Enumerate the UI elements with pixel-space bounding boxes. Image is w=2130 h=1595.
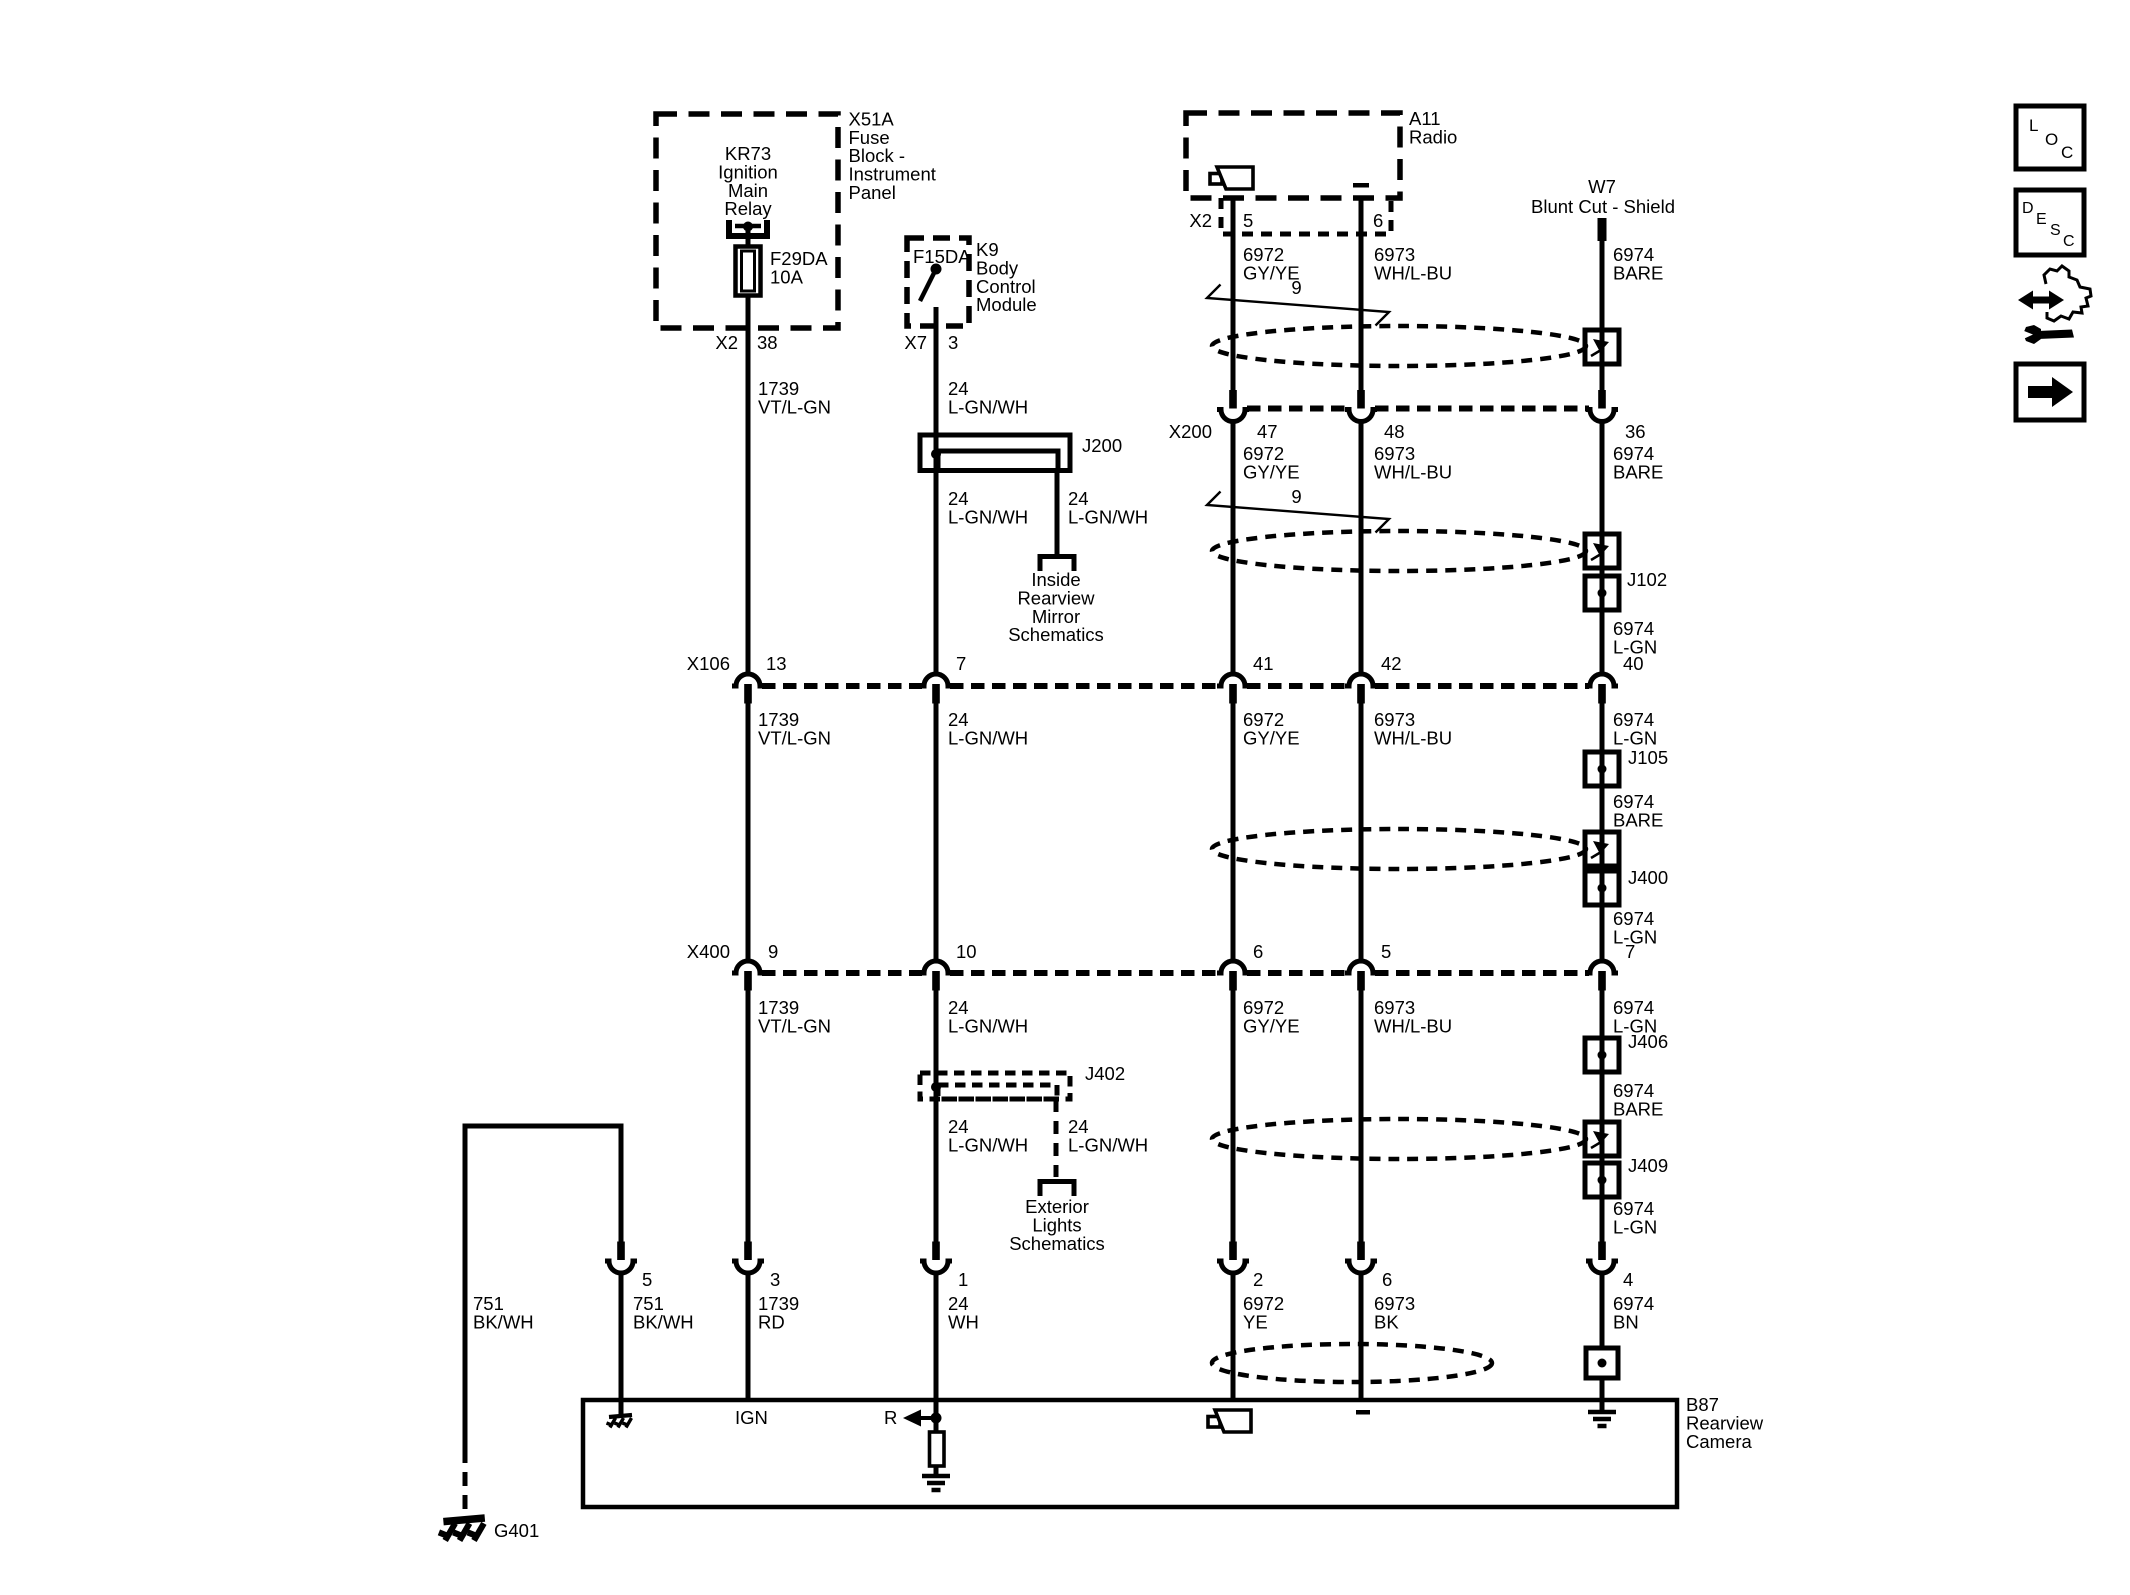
- wire B X400 to bottom connector: [934, 989, 939, 1242]
- label 24 L-GN/WH section 4: [948, 997, 1028, 1036]
- label Exterior Lights Schematics: [1009, 1196, 1105, 1254]
- svg-text:42: 42: [1381, 653, 1402, 674]
- svg-text:X400: X400: [687, 941, 730, 962]
- wire C X200 to X106: [1231, 422, 1236, 675]
- connector X200 terminal wire C: [1217, 390, 1249, 422]
- connector X400 dashed line: [762, 970, 1589, 976]
- camera connector terminal wire C: [1217, 1242, 1249, 1274]
- svg-text:Panel: Panel: [849, 182, 896, 203]
- label 6972 GY/YE section 4: [1243, 997, 1300, 1036]
- label 24 L-GN/WH section 3: [948, 709, 1028, 748]
- shield ellipse bottom: [1212, 1344, 1492, 1382]
- label 6974 BARE circuit: [1613, 244, 1663, 283]
- svg-text:L-GN: L-GN: [1613, 1216, 1657, 1237]
- label 6972 GY/YE circuit: [1243, 244, 1300, 283]
- label 1739 VT/L-GN section 4: [758, 997, 831, 1036]
- fuse block X51A dashed enclosure: [656, 114, 838, 328]
- svg-text:Blunt Cut - Shield: Blunt Cut - Shield: [1531, 196, 1675, 217]
- svg-text:Schematics: Schematics: [1008, 624, 1104, 645]
- svg-text:40: 40: [1623, 653, 1644, 674]
- minus pin inside B87: [1356, 1410, 1370, 1415]
- svg-text:C: C: [2061, 143, 2073, 162]
- wire B87 R input to resistor: [934, 1400, 939, 1433]
- wire E X200 to X106: [1600, 422, 1605, 675]
- wire A fuse to connector X106: [746, 294, 751, 674]
- svg-text:GY/YE: GY/YE: [1243, 461, 1300, 482]
- svg-text:J402: J402: [1085, 1063, 1125, 1084]
- label 1739 VT/L-GN circuit: [758, 378, 831, 417]
- camera connector terminal wire D: [1345, 1242, 1377, 1274]
- off-page connector Exterior Lights: [1040, 1182, 1074, 1197]
- label 24 L-GN/WH circuit: [948, 378, 1028, 417]
- svg-text:RD: RD: [758, 1311, 785, 1332]
- svg-text:BN: BN: [1613, 1311, 1639, 1332]
- label 24 L-GN/WH J402 branch: [1068, 1116, 1148, 1155]
- resistor internal: [930, 1432, 945, 1466]
- svg-text:BARE: BARE: [1613, 461, 1663, 482]
- svg-text:BK/WH: BK/WH: [633, 1311, 694, 1332]
- svg-text:D: D: [2022, 200, 2034, 217]
- svg-text:G401: G401: [494, 1520, 539, 1541]
- svg-text:J400: J400: [1628, 867, 1668, 888]
- pin label X7 3: [904, 332, 958, 353]
- svg-text:WH/L-BU: WH/L-BU: [1374, 461, 1452, 482]
- svg-text:J406: J406: [1628, 1031, 1668, 1052]
- connector X106 terminal wire E: [1586, 674, 1618, 704]
- svg-text:5: 5: [1243, 210, 1253, 231]
- label 24 L-GN/WH below J402: [948, 1116, 1028, 1155]
- ground G401: [439, 1518, 485, 1541]
- icon box DESC: [2016, 190, 2084, 255]
- label Inside Rearview Mirror Schematics: [1008, 569, 1104, 645]
- svg-text:2: 2: [1253, 1269, 1263, 1290]
- label 6972 GY/YE section 2: [1243, 443, 1300, 482]
- svg-text:BK/WH: BK/WH: [473, 1311, 534, 1332]
- label 6973 BK: [1374, 1293, 1415, 1332]
- label X400 and pins 9 10 6 5 7: [687, 941, 1636, 962]
- wire A below connector to B87: [746, 1273, 751, 1400]
- svg-text:7: 7: [956, 653, 966, 674]
- svg-text:X2: X2: [1189, 210, 1212, 231]
- svg-text:36: 36: [1625, 421, 1646, 442]
- wire D radio to X200: [1359, 198, 1364, 391]
- svg-text:41: 41: [1253, 653, 1274, 674]
- connector X200 terminal wire D: [1345, 390, 1377, 422]
- icon box LOC: [2016, 106, 2084, 169]
- label J105: [1628, 747, 1668, 768]
- svg-text:J102: J102: [1627, 569, 1667, 590]
- svg-text:L-GN/WH: L-GN/WH: [948, 727, 1028, 748]
- camera connector terminal wire ground branch: [605, 1242, 637, 1274]
- label J400: [1628, 867, 1668, 888]
- svg-text:YE: YE: [1243, 1311, 1268, 1332]
- svg-text:L: L: [2029, 116, 2038, 135]
- svg-text:1: 1: [958, 1269, 968, 1290]
- splice J105: [1585, 752, 1619, 786]
- svg-text:BK: BK: [1374, 1311, 1399, 1332]
- svg-text:Module: Module: [976, 294, 1037, 315]
- icon box forward arrow: [2016, 364, 2084, 420]
- wire E X106 to X400: [1600, 702, 1605, 961]
- label 24 WH: [948, 1293, 979, 1332]
- wire A X400 to bottom connector: [746, 989, 751, 1242]
- shield splice on wire E bottom: [1586, 1348, 1618, 1378]
- label 24 L-GN/WH branch: [1068, 488, 1148, 527]
- svg-text:13: 13: [766, 653, 787, 674]
- internal ground pin B87: [607, 1400, 633, 1428]
- wire relay to fuse: [746, 227, 751, 247]
- label X51A Fuse Block - Instrument Panel: [849, 108, 936, 203]
- svg-text:E: E: [2036, 211, 2047, 228]
- label 1739 RD: [758, 1293, 799, 1332]
- svg-text:WH/L-BU: WH/L-BU: [1374, 262, 1452, 283]
- wire E below connector to small splice: [1600, 1273, 1605, 1400]
- connector pocket X2 of radio: [1221, 198, 1391, 234]
- wire D X200 to X106: [1359, 422, 1364, 675]
- svg-text:WH/L-BU: WH/L-BU: [1374, 727, 1452, 748]
- wire C X400 to bottom connector: [1231, 989, 1236, 1242]
- label 6974 L-GN above X106: [1613, 618, 1657, 657]
- svg-text:VT/L-GN: VT/L-GN: [758, 396, 831, 417]
- label 6972 YE: [1243, 1293, 1284, 1332]
- label X106 and pins 13 7 41 42 40: [687, 653, 1644, 674]
- svg-text:38: 38: [757, 332, 778, 353]
- pins 5 3 1 2 6 4: [642, 1269, 1633, 1290]
- label R pin with arrow: [884, 1407, 942, 1428]
- label 6972 GY/YE section 3: [1243, 709, 1300, 748]
- wire B switch to connector X106: [934, 307, 939, 674]
- label 24 L-GN/WH below J200: [948, 488, 1028, 527]
- wire ground jumper horizontal: [465, 1126, 621, 1449]
- svg-text:Relay: Relay: [724, 198, 772, 219]
- svg-text:47: 47: [1257, 421, 1278, 442]
- svg-text:48: 48: [1384, 421, 1405, 442]
- svg-text:X200: X200: [1169, 421, 1212, 442]
- svg-text:F15DA: F15DA: [913, 246, 971, 267]
- svg-text:L-GN/WH: L-GN/WH: [948, 1015, 1028, 1036]
- wire D X106 to X400: [1359, 702, 1364, 961]
- label 6974 L-GN below J409: [1613, 1198, 1657, 1237]
- twisted pair mark 9 lower: [1207, 486, 1389, 533]
- blunt cut stub W7: [1598, 218, 1607, 241]
- wire branch below connector to B87: [619, 1273, 624, 1400]
- svg-text:L-GN/WH: L-GN/WH: [1068, 506, 1148, 527]
- shield termination on wire E upper: [1585, 330, 1619, 364]
- relay KR73 contact symbol: [729, 220, 767, 236]
- wire J200 branch to off-page: [1055, 470, 1060, 556]
- svg-text:7: 7: [1625, 941, 1635, 962]
- label W7 Blunt Cut - Shield: [1531, 176, 1675, 217]
- label X200 and pins 47 48 36: [1169, 421, 1646, 442]
- svg-text:L-GN: L-GN: [1613, 727, 1657, 748]
- connector X400 terminal wire C: [1217, 961, 1249, 991]
- svg-text:L-GN/WH: L-GN/WH: [948, 506, 1028, 527]
- svg-text:J200: J200: [1082, 435, 1122, 456]
- splice J406: [1585, 1038, 1619, 1072]
- svg-text:Radio: Radio: [1409, 126, 1457, 147]
- label 6973 WH/L-BU section 4: [1374, 997, 1452, 1036]
- shield ground pin inside B87: [1588, 1400, 1616, 1426]
- component B87 Rearview Camera box: [583, 1400, 1677, 1507]
- connector X400 terminal wire B: [920, 961, 952, 991]
- label 1739 VT/L-GN section 3: [758, 709, 831, 748]
- svg-text:10A: 10A: [770, 266, 804, 287]
- shield ellipse upper: [1212, 326, 1586, 366]
- connector X106 terminal wire B: [920, 674, 952, 704]
- minus pin inside radio: [1353, 183, 1369, 188]
- wire C below connector to B87: [1231, 1273, 1236, 1400]
- wire E shield to X200: [1600, 239, 1605, 391]
- svg-text:10: 10: [956, 941, 977, 962]
- radio A11 dashed enclosure: [1186, 113, 1400, 198]
- label G401: [494, 1520, 539, 1541]
- svg-text:X2: X2: [715, 332, 738, 353]
- svg-text:L-GN/WH: L-GN/WH: [1068, 1134, 1148, 1155]
- connector X106 dashed line: [762, 683, 1589, 689]
- connector X200 terminal wire E: [1586, 390, 1618, 422]
- label 6974 L-GN section 3: [1613, 709, 1657, 748]
- label F29DA 10A: [770, 248, 828, 287]
- fuse F29DA 10A: [736, 247, 761, 296]
- camera icon inside radio: [1210, 167, 1253, 189]
- label J402: [1085, 1063, 1125, 1084]
- splice pack J402 dashed: [920, 1073, 1070, 1099]
- label 6974 BARE below J406: [1613, 1080, 1663, 1119]
- twisted pair mark 9 upper: [1207, 277, 1389, 326]
- svg-text:IGN: IGN: [735, 1407, 768, 1428]
- svg-text:9: 9: [768, 941, 778, 962]
- label 6974 BARE below J105: [1613, 791, 1663, 830]
- svg-text:9: 9: [1291, 277, 1301, 298]
- svg-text:4: 4: [1623, 1269, 1633, 1290]
- wire C X106 to X400: [1231, 702, 1236, 961]
- wire A X106 to X400: [746, 702, 751, 961]
- label 6973 WH/L-BU section 2: [1374, 443, 1452, 482]
- svg-text:WH: WH: [948, 1311, 979, 1332]
- label 6974 BN: [1613, 1293, 1654, 1332]
- label 6974 BARE section 2: [1613, 443, 1663, 482]
- wire D X400 to bottom connector: [1359, 989, 1364, 1242]
- svg-text:6: 6: [1382, 1269, 1392, 1290]
- label 6973 WH/L-BU section 3: [1374, 709, 1452, 748]
- svg-text:VT/L-GN: VT/L-GN: [758, 1015, 831, 1036]
- svg-text:J105: J105: [1628, 747, 1668, 768]
- connector X400 terminal wire D: [1345, 961, 1377, 991]
- label J102: [1627, 569, 1667, 590]
- label 751 BK/WH left: [473, 1293, 534, 1332]
- icon repair instructions wrench: [2018, 266, 2091, 344]
- wire J402 branch dashed to off-page: [1054, 1099, 1059, 1177]
- connector X400 terminal wire A: [732, 961, 764, 991]
- svg-text:C: C: [2063, 233, 2075, 250]
- svg-text:S: S: [2050, 222, 2061, 239]
- connector X200 dashed line: [1247, 406, 1589, 412]
- svg-text:9: 9: [1291, 486, 1301, 507]
- wire dashed to G401: [463, 1449, 468, 1517]
- label J406: [1628, 1031, 1668, 1052]
- label 6973 WH/L-BU circuit: [1374, 244, 1452, 283]
- splice J400: [1585, 871, 1619, 905]
- splice pack J200: [920, 435, 1070, 471]
- shield termination on wire E fourth: [1585, 1122, 1619, 1156]
- svg-text:X106: X106: [687, 653, 730, 674]
- svg-text:3: 3: [770, 1269, 780, 1290]
- label J200: [1082, 435, 1122, 456]
- label B87 Rearview Camera: [1686, 1394, 1764, 1452]
- svg-text:WH/L-BU: WH/L-BU: [1374, 1015, 1452, 1036]
- svg-text:W7: W7: [1588, 176, 1616, 197]
- shield ellipse fourth: [1212, 1119, 1586, 1159]
- wire B X106 to X400: [934, 702, 939, 961]
- svg-text:R: R: [884, 1407, 897, 1428]
- svg-text:6: 6: [1373, 210, 1383, 231]
- label 751 BK/WH branch: [633, 1293, 694, 1332]
- camera connector terminal wire B: [920, 1242, 952, 1274]
- svg-text:O: O: [2045, 130, 2058, 149]
- label IGN pin: [735, 1407, 768, 1428]
- connector X106 terminal wire D: [1345, 674, 1377, 704]
- label KR73 Ignition Main Relay: [718, 143, 778, 219]
- label K9 Body Control Module: [976, 239, 1037, 315]
- wire D below connector to B87: [1359, 1273, 1364, 1400]
- pin label X2 5 6: [1189, 210, 1383, 231]
- label J409: [1628, 1155, 1668, 1176]
- svg-text:VT/L-GN: VT/L-GN: [758, 727, 831, 748]
- shield ellipse third: [1212, 829, 1586, 869]
- shield termination on wire E second: [1585, 534, 1619, 568]
- svg-text:6: 6: [1253, 941, 1263, 962]
- wire C radio to X200: [1231, 198, 1236, 391]
- label 6974 L-GN above X400: [1613, 908, 1657, 947]
- shield ellipse second: [1212, 531, 1586, 571]
- svg-text:L-GN/WH: L-GN/WH: [948, 1134, 1028, 1155]
- label F15DA: [913, 246, 971, 267]
- svg-text:BARE: BARE: [1613, 1098, 1663, 1119]
- svg-text:3: 3: [948, 332, 958, 353]
- connector X400 terminal wire E: [1586, 961, 1618, 991]
- shield termination on wire E third: [1585, 832, 1619, 866]
- svg-text:BARE: BARE: [1613, 809, 1663, 830]
- label A11 Radio: [1409, 108, 1457, 147]
- svg-text:GY/YE: GY/YE: [1243, 1015, 1300, 1036]
- signal ground internal: [922, 1476, 950, 1490]
- switch F15DA: [920, 264, 942, 302]
- svg-text:GY/YE: GY/YE: [1243, 727, 1300, 748]
- camera icon inside B87: [1208, 1410, 1251, 1432]
- svg-text:Camera: Camera: [1686, 1431, 1753, 1452]
- label 6974 L-GN section 4: [1613, 997, 1657, 1036]
- wire B below connector to B87: [934, 1273, 939, 1400]
- off-page connector Inside Rearview Mirror: [1040, 557, 1074, 572]
- connector X106 terminal wire A: [732, 674, 764, 704]
- splice J409: [1585, 1163, 1619, 1197]
- connector X106 terminal wire C: [1217, 674, 1249, 704]
- pin label X2 38: [715, 332, 777, 353]
- splice J102: [1585, 576, 1619, 610]
- svg-text:5: 5: [1381, 941, 1391, 962]
- camera connector terminal wire E: [1586, 1242, 1618, 1274]
- camera connector terminal wire A: [732, 1242, 764, 1274]
- svg-text:Schematics: Schematics: [1009, 1233, 1105, 1254]
- svg-text:BARE: BARE: [1613, 262, 1663, 283]
- svg-text:J409: J409: [1628, 1155, 1668, 1176]
- wire E X400 to bottom connector: [1600, 989, 1605, 1242]
- wire resistor to ground: [934, 1466, 939, 1476]
- module K9 dashed enclosure: [907, 238, 969, 326]
- svg-text:X7: X7: [904, 332, 927, 353]
- svg-text:L-GN/WH: L-GN/WH: [948, 396, 1028, 417]
- svg-text:5: 5: [642, 1269, 652, 1290]
